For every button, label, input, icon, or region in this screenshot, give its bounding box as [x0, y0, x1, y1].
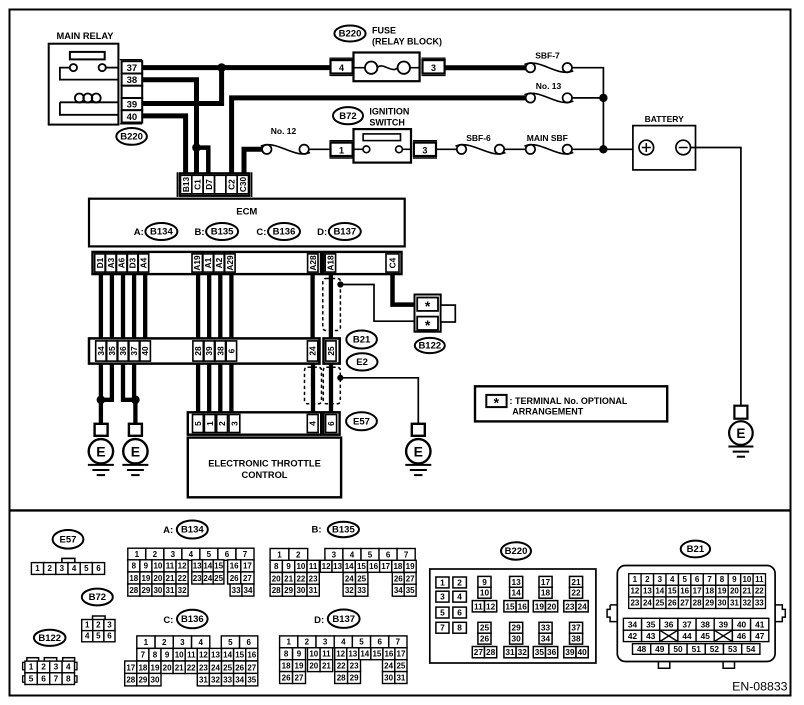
svg-text:40: 40	[737, 619, 747, 629]
svg-text:B137: B137	[332, 614, 355, 625]
svg-text:1: 1	[135, 550, 140, 559]
svg-text:53: 53	[728, 644, 738, 654]
svg-text:37: 37	[127, 63, 138, 74]
svg-text:6: 6	[107, 632, 112, 641]
connector E2 oval	[347, 353, 378, 370]
dashed optional-arrangement box around wire 24	[305, 367, 322, 404]
connector B21 oval (pinout)	[681, 541, 710, 558]
svg-text:29: 29	[511, 623, 521, 633]
svg-text:11: 11	[187, 651, 196, 660]
svg-text:10: 10	[309, 650, 318, 659]
svg-text:24: 24	[577, 601, 587, 611]
svg-text:8: 8	[274, 562, 279, 571]
svg-text:25: 25	[326, 346, 336, 356]
svg-text:2: 2	[296, 550, 301, 559]
fuse terminal 4	[330, 58, 354, 75]
connector B21 pinout	[607, 566, 785, 669]
svg-text:17: 17	[693, 587, 702, 596]
svg-text:A29: A29	[225, 255, 235, 271]
connector B72 pinout	[82, 616, 115, 642]
connector E57 oval (pinout)	[53, 530, 84, 549]
svg-text:2: 2	[153, 550, 158, 559]
svg-text:9: 9	[165, 651, 170, 660]
wire ECM C2 to fuse No. 13	[232, 98, 526, 174]
svg-text:12: 12	[336, 650, 345, 659]
svg-text:A19: A19	[192, 255, 202, 271]
svg-text:5: 5	[682, 575, 687, 584]
svg-text:14: 14	[223, 651, 232, 660]
svg-text:B136: B136	[273, 227, 296, 238]
ignition switch terminal 1	[330, 141, 354, 158]
wire 39-1	[207, 364, 211, 414]
svg-text:7: 7	[141, 651, 146, 660]
ignition switch SW body	[354, 129, 412, 163]
wire SBF-6 to MAIN SBF	[504, 148, 526, 150]
svg-text:16: 16	[230, 562, 239, 571]
svg-text:20: 20	[163, 663, 172, 672]
svg-text:C4: C4	[388, 257, 398, 268]
svg-text:27: 27	[295, 673, 304, 682]
wire ECM C30 to fuse No. 12	[244, 149, 262, 173]
svg-text:9: 9	[482, 577, 487, 587]
svg-text:22: 22	[571, 588, 581, 598]
svg-text:8: 8	[284, 650, 289, 659]
ground E (left 1)	[88, 439, 114, 475]
connector B21 oval	[346, 331, 377, 349]
connector B220 oval (main relay)	[116, 128, 147, 145]
svg-text:14: 14	[345, 562, 354, 571]
svg-text:15: 15	[668, 587, 677, 596]
svg-text:E: E	[131, 443, 140, 459]
svg-text:37: 37	[571, 623, 581, 633]
ground terminal box 2	[129, 424, 142, 436]
svg-text:26: 26	[480, 634, 490, 644]
svg-text:13: 13	[643, 587, 652, 596]
svg-text:32: 32	[518, 647, 528, 657]
svg-text:6: 6	[226, 348, 236, 353]
relay pin column pins 37 38 39 40	[120, 60, 142, 124]
svg-text:5: 5	[96, 632, 101, 641]
svg-text:12: 12	[322, 562, 331, 571]
svg-text:29: 29	[705, 598, 714, 607]
svg-text:30: 30	[151, 676, 160, 685]
wire 36 to ground junction	[123, 364, 135, 400]
svg-text:46: 46	[737, 631, 747, 641]
svg-text:C:: C:	[256, 227, 266, 238]
svg-text:14: 14	[203, 562, 212, 571]
svg-text:29: 29	[138, 676, 147, 685]
svg-text:A4: A4	[139, 257, 149, 268]
svg-text:5: 5	[440, 608, 445, 618]
svg-text:7: 7	[54, 673, 59, 683]
svg-text:33: 33	[223, 676, 232, 685]
svg-text:24: 24	[643, 598, 652, 607]
ground E (E2 branch)	[405, 439, 431, 475]
svg-text:8: 8	[132, 562, 137, 571]
svg-text:11: 11	[309, 562, 318, 571]
svg-text:25: 25	[357, 574, 366, 583]
connector C:B136 pinout	[125, 636, 258, 686]
svg-text:1: 1	[205, 421, 215, 426]
svg-text:10: 10	[175, 651, 184, 660]
svg-text:35: 35	[247, 676, 256, 685]
svg-text:28: 28	[337, 673, 346, 682]
svg-text:36: 36	[664, 619, 674, 629]
wire D3-37	[132, 274, 136, 338]
svg-text:32: 32	[178, 586, 187, 595]
svg-text:8: 8	[66, 673, 71, 683]
svg-text:54: 54	[746, 644, 756, 654]
ECM bottom connector row 2 (A18 C4)	[323, 252, 401, 274]
svg-text:8: 8	[720, 575, 725, 584]
svg-text:8: 8	[457, 623, 462, 633]
svg-text:2: 2	[41, 662, 46, 672]
svg-text:22: 22	[337, 661, 346, 670]
svg-text:D:: D:	[317, 227, 327, 238]
svg-text:10: 10	[742, 575, 751, 584]
wire 35 to ground junction	[101, 364, 112, 400]
svg-text:44: 44	[682, 631, 692, 641]
svg-text:21: 21	[175, 663, 184, 672]
svg-text:20: 20	[309, 661, 318, 670]
svg-text:17: 17	[397, 650, 406, 659]
svg-text:23: 23	[630, 598, 639, 607]
svg-text:19: 19	[141, 574, 150, 583]
svg-text:C:: C:	[163, 615, 173, 626]
svg-text:7: 7	[707, 575, 712, 584]
svg-text:29: 29	[350, 673, 359, 682]
svg-text:4: 4	[198, 638, 203, 647]
svg-text:B136: B136	[181, 614, 204, 625]
connector B220 pinout	[430, 569, 596, 663]
svg-text:A1: A1	[203, 257, 213, 268]
svg-text:23: 23	[199, 663, 208, 672]
svg-text:13: 13	[333, 562, 342, 571]
svg-text:3: 3	[107, 620, 112, 629]
svg-text:ECM: ECM	[236, 206, 257, 217]
svg-text:20: 20	[730, 587, 739, 596]
svg-text:MAIN RELAY: MAIN RELAY	[57, 31, 115, 41]
wire MAIN SBF to battery plus	[572, 148, 639, 150]
svg-text:A:: A:	[134, 227, 144, 238]
connector B122 (terminals * *)	[415, 295, 456, 333]
svg-text:10: 10	[153, 562, 162, 571]
svg-text:32: 32	[742, 598, 751, 607]
svg-text:FUSE: FUSE	[372, 25, 396, 35]
svg-text:1: 1	[440, 577, 445, 587]
svg-text:21: 21	[322, 661, 331, 670]
svg-text:3: 3	[180, 638, 185, 647]
svg-text:17: 17	[541, 577, 551, 587]
svg-text:27: 27	[474, 647, 484, 657]
svg-text:21: 21	[284, 574, 293, 583]
svg-text:1: 1	[144, 638, 149, 647]
electronic throttle control box	[188, 438, 341, 498]
wire A18-25	[329, 274, 333, 338]
svg-text:32: 32	[211, 676, 220, 685]
svg-text:13: 13	[348, 650, 357, 659]
wire No. 13 to battery node	[572, 97, 603, 99]
svg-text:3: 3	[323, 638, 328, 647]
svg-text:4: 4	[457, 592, 462, 602]
junction node ground 1	[97, 396, 106, 405]
svg-text:: TERMINAL No. OPTIONAL: : TERMINAL No. OPTIONAL	[510, 396, 628, 406]
svg-text:*: *	[425, 317, 431, 333]
svg-text:18: 18	[138, 663, 147, 672]
connector B:B135 pinout	[270, 549, 416, 597]
svg-text:6: 6	[377, 638, 382, 647]
svg-text:21: 21	[166, 574, 175, 583]
svg-text:3: 3	[440, 592, 445, 602]
svg-text:7: 7	[440, 623, 445, 633]
svg-text:SBF-7: SBF-7	[535, 51, 560, 61]
connector B72 oval (pinout)	[82, 589, 113, 606]
svg-text:18: 18	[705, 587, 714, 596]
svg-text:5: 5	[29, 673, 34, 683]
svg-text:C2: C2	[227, 179, 237, 190]
svg-text:No. 13: No. 13	[536, 81, 562, 91]
svg-text:19: 19	[406, 562, 415, 571]
svg-text:25: 25	[214, 574, 223, 583]
svg-text:E: E	[736, 426, 745, 441]
connector B220 oval (fuse relay block)	[334, 26, 365, 42]
junction node on wire 37	[217, 63, 226, 72]
ground terminal box 1	[95, 424, 108, 436]
svg-text:3: 3	[658, 575, 663, 584]
svg-text:25: 25	[480, 623, 490, 633]
wire D1-34	[99, 274, 103, 338]
svg-text:A3: A3	[106, 257, 116, 268]
svg-text:38: 38	[571, 634, 581, 644]
svg-text:30: 30	[511, 634, 521, 644]
legend: terminal no. optional arrangement	[475, 386, 667, 421]
svg-text:31: 31	[199, 676, 208, 685]
svg-text:27: 27	[680, 598, 689, 607]
svg-text:25: 25	[396, 661, 405, 670]
svg-text:30: 30	[296, 586, 305, 595]
svg-text:21: 21	[571, 577, 581, 587]
wire pin38 to ECM C1	[142, 80, 197, 174]
svg-text:9: 9	[286, 562, 291, 571]
wire 6-3	[229, 364, 233, 414]
relay MAIN RELAY box	[49, 44, 119, 125]
svg-text:31: 31	[309, 586, 318, 595]
svg-text:4: 4	[66, 662, 71, 672]
svg-text:38: 38	[701, 619, 711, 629]
svg-text:22: 22	[296, 574, 305, 583]
svg-text:28: 28	[486, 647, 496, 657]
svg-text:E: E	[96, 443, 105, 459]
wire A4-40	[143, 274, 147, 338]
svg-text:SWITCH: SWITCH	[369, 118, 405, 128]
wire pin39 to junction	[142, 68, 222, 104]
svg-text:16: 16	[384, 650, 393, 659]
fuse F4 (relay block) body	[354, 53, 420, 82]
svg-text:24: 24	[203, 574, 212, 583]
svg-text:2: 2	[217, 421, 227, 426]
svg-text:51: 51	[692, 644, 702, 654]
svg-text:28: 28	[693, 598, 702, 607]
svg-text:17: 17	[126, 663, 135, 672]
svg-text:12: 12	[178, 562, 187, 571]
wire node to B122 pin *	[340, 285, 415, 322]
svg-text:14: 14	[655, 587, 664, 596]
svg-text:52: 52	[710, 644, 720, 654]
svg-text:19: 19	[535, 601, 545, 611]
svg-text:20: 20	[272, 574, 281, 583]
svg-text:45: 45	[701, 631, 711, 641]
svg-text:1: 1	[35, 564, 40, 573]
svg-text:B134: B134	[150, 227, 173, 238]
svg-text:2: 2	[96, 620, 101, 629]
svg-text:39: 39	[204, 346, 214, 356]
svg-text:40: 40	[577, 647, 587, 657]
svg-text:17: 17	[243, 562, 252, 571]
svg-text:6: 6	[386, 550, 391, 559]
svg-text:BATTERY: BATTERY	[645, 114, 685, 124]
svg-text:6: 6	[96, 564, 101, 573]
connector row E2 (25)	[324, 338, 340, 363]
svg-text:24: 24	[308, 346, 318, 356]
svg-text:21: 21	[742, 587, 751, 596]
svg-text:33: 33	[755, 598, 764, 607]
svg-text:11: 11	[166, 562, 175, 571]
ignition switch terminal 3	[413, 141, 437, 158]
svg-text:11: 11	[322, 650, 331, 659]
svg-text:15: 15	[214, 562, 223, 571]
wire A6-36	[121, 274, 125, 338]
svg-text:6: 6	[225, 550, 230, 559]
wire A29-6	[229, 274, 233, 338]
svg-text:19: 19	[151, 663, 160, 672]
svg-text:19: 19	[295, 661, 304, 670]
svg-text:23: 23	[350, 661, 359, 670]
ECM box	[89, 199, 405, 247]
svg-text:35: 35	[107, 346, 117, 356]
svg-text:23: 23	[309, 574, 318, 583]
svg-text:34: 34	[244, 586, 253, 595]
connector E57 oval	[346, 412, 377, 430]
svg-text:9: 9	[297, 650, 302, 659]
svg-text:49: 49	[655, 644, 665, 654]
svg-text:B72: B72	[339, 111, 356, 122]
svg-text:B134: B134	[181, 525, 204, 536]
svg-text:10: 10	[480, 588, 490, 598]
svg-text:26: 26	[282, 673, 291, 682]
svg-text:C1: C1	[193, 179, 203, 190]
svg-text:9: 9	[144, 562, 149, 571]
svg-text:3: 3	[229, 421, 239, 426]
svg-text:16: 16	[247, 651, 256, 660]
svg-text:30: 30	[153, 586, 162, 595]
svg-text:42: 42	[628, 631, 638, 641]
svg-text:35: 35	[406, 586, 415, 595]
svg-text:10: 10	[296, 562, 305, 571]
svg-text:6: 6	[41, 673, 46, 683]
svg-text:34: 34	[394, 586, 403, 595]
svg-text:B:: B:	[311, 524, 321, 535]
svg-text:28: 28	[193, 346, 203, 356]
svg-text:A:: A:	[163, 525, 173, 536]
svg-text:24: 24	[211, 663, 220, 672]
wire node to ground E2	[340, 378, 418, 425]
svg-text:B72: B72	[89, 592, 106, 603]
wire A19-28	[196, 274, 200, 338]
svg-text:36: 36	[118, 346, 128, 356]
svg-text:MAIN SBF: MAIN SBF	[527, 133, 568, 143]
svg-text:7: 7	[404, 550, 409, 559]
svg-text:4: 4	[339, 63, 344, 73]
junction node on wire 38	[192, 143, 201, 152]
svg-text:6: 6	[246, 638, 251, 647]
separator line between schematic and connector views	[10, 509, 791, 511]
svg-text:4: 4	[341, 638, 346, 647]
svg-text:18: 18	[129, 574, 138, 583]
junction node ground 2	[131, 396, 140, 405]
svg-text:15: 15	[505, 601, 515, 611]
svg-text:1: 1	[85, 620, 90, 629]
svg-text:40: 40	[140, 346, 150, 356]
svg-text:B21: B21	[687, 544, 705, 555]
svg-text:4: 4	[670, 575, 675, 584]
svg-text:38: 38	[127, 75, 138, 86]
wire A2-38	[218, 274, 222, 338]
svg-text:5: 5	[207, 550, 212, 559]
svg-text:13: 13	[211, 651, 220, 660]
connector A:B134 pinout	[128, 548, 254, 596]
svg-text:*: *	[425, 298, 431, 314]
connector row E57 on throttle control (5 1 2 3 4)	[188, 412, 321, 434]
svg-text:26: 26	[235, 663, 244, 672]
connector B122 pinout	[23, 658, 77, 685]
svg-text:35: 35	[535, 647, 545, 657]
node on wire 25 to ground	[337, 375, 343, 381]
svg-text:B220: B220	[505, 546, 528, 557]
svg-text:17: 17	[381, 562, 390, 571]
svg-text:4: 4	[308, 421, 318, 426]
fuse terminal 3	[422, 58, 446, 75]
wire branch to ECM D7	[197, 148, 209, 174]
svg-text:18: 18	[393, 562, 402, 571]
svg-text:*: *	[494, 394, 500, 410]
svg-text:A18: A18	[325, 255, 335, 271]
ground terminal box 3	[412, 424, 425, 436]
svg-text:38: 38	[215, 346, 225, 356]
svg-text:27: 27	[406, 574, 415, 583]
svg-text:18: 18	[282, 661, 291, 670]
svg-text:7: 7	[396, 638, 401, 647]
svg-text:31: 31	[166, 586, 175, 595]
svg-text:D1: D1	[95, 257, 105, 268]
svg-text:33: 33	[232, 586, 241, 595]
svg-text:B135: B135	[211, 227, 234, 238]
svg-text:3: 3	[422, 145, 427, 155]
wire 24-4	[311, 364, 315, 414]
svg-text:31: 31	[396, 673, 405, 682]
ground terminal box (battery)	[734, 406, 747, 419]
svg-text:B220: B220	[120, 132, 143, 143]
wire pin40 to ECM B13	[142, 116, 186, 174]
svg-text:4: 4	[189, 550, 194, 559]
svg-text:34: 34	[541, 634, 551, 644]
svg-text:20: 20	[547, 601, 557, 611]
svg-text:32: 32	[345, 586, 354, 595]
wire 28-5	[196, 364, 200, 414]
svg-text:19: 19	[718, 587, 727, 596]
svg-text:31: 31	[505, 647, 515, 657]
connector row E57 (6)	[323, 412, 339, 434]
svg-text:27: 27	[243, 574, 252, 583]
